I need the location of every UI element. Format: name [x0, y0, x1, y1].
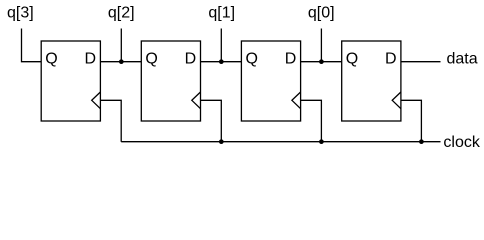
clock input chevron of U4 [392, 92, 401, 109]
wire U2.D to U3.Q [201, 61, 242, 63]
flip-flop U1 (q[3] stage) body [41, 41, 100, 121]
wire U1 clock stub (right then down to clock rail) [100, 100, 121, 141]
junction node q[2] tap [119, 59, 124, 64]
junction node U3 clock on rail [319, 139, 324, 144]
svg-text:Q: Q [145, 51, 157, 68]
svg-text:Q: Q [45, 51, 57, 68]
wire U4.D to data label [401, 61, 441, 63]
flip-flop U2 (q[2] stage) body [141, 41, 200, 121]
svg-text:q[2]: q[2] [108, 5, 135, 22]
wire q[2] stub (vertical drop from label to Q1-D2 net) [120, 29, 122, 62]
clock input chevron of U1 [92, 92, 101, 109]
wire U1.D to U2.Q [100, 61, 141, 63]
wire q[3] stub (vertical drop from label, bend right into FF1 Q pin) [22, 29, 42, 62]
svg-text:data: data [447, 51, 478, 68]
svg-text:Q: Q [246, 51, 258, 68]
svg-text:D: D [285, 51, 297, 68]
svg-text:D: D [185, 51, 197, 68]
wire q[1] stub (vertical drop from label to Q2-D3 net) [220, 29, 222, 62]
junction node q[0] tap [319, 59, 324, 64]
svg-text:clock: clock [443, 134, 480, 151]
clock input chevron of U2 [192, 92, 201, 109]
junction node U4 clock on rail [419, 139, 424, 144]
clock input chevron of U3 [292, 92, 301, 109]
wire q[0] stub (vertical drop from label to Q3-D4 net) [320, 29, 322, 62]
junction node q[1] tap [219, 59, 224, 64]
svg-text:q[3]: q[3] [7, 5, 34, 22]
wire U3 clock stub (right then down to clock rail) [301, 100, 322, 141]
svg-text:q[1]: q[1] [208, 5, 235, 22]
svg-text:Q: Q [346, 51, 358, 68]
flip-flop U3 (q[1] stage) body [241, 41, 300, 121]
junction node U2 clock on rail [219, 139, 224, 144]
wire U4 clock stub (right then down to clock rail) [401, 100, 422, 141]
wire clock rail (horizontal bus to clock label) [121, 141, 440, 143]
svg-text:D: D [385, 51, 397, 68]
svg-text:q[0]: q[0] [308, 5, 335, 22]
flip-flop U4 (q[0] stage) body [342, 41, 401, 121]
wire U3.D to U4.Q [301, 61, 342, 63]
wire U2 clock stub (right then down to clock rail) [201, 100, 222, 141]
svg-text:D: D [85, 51, 97, 68]
